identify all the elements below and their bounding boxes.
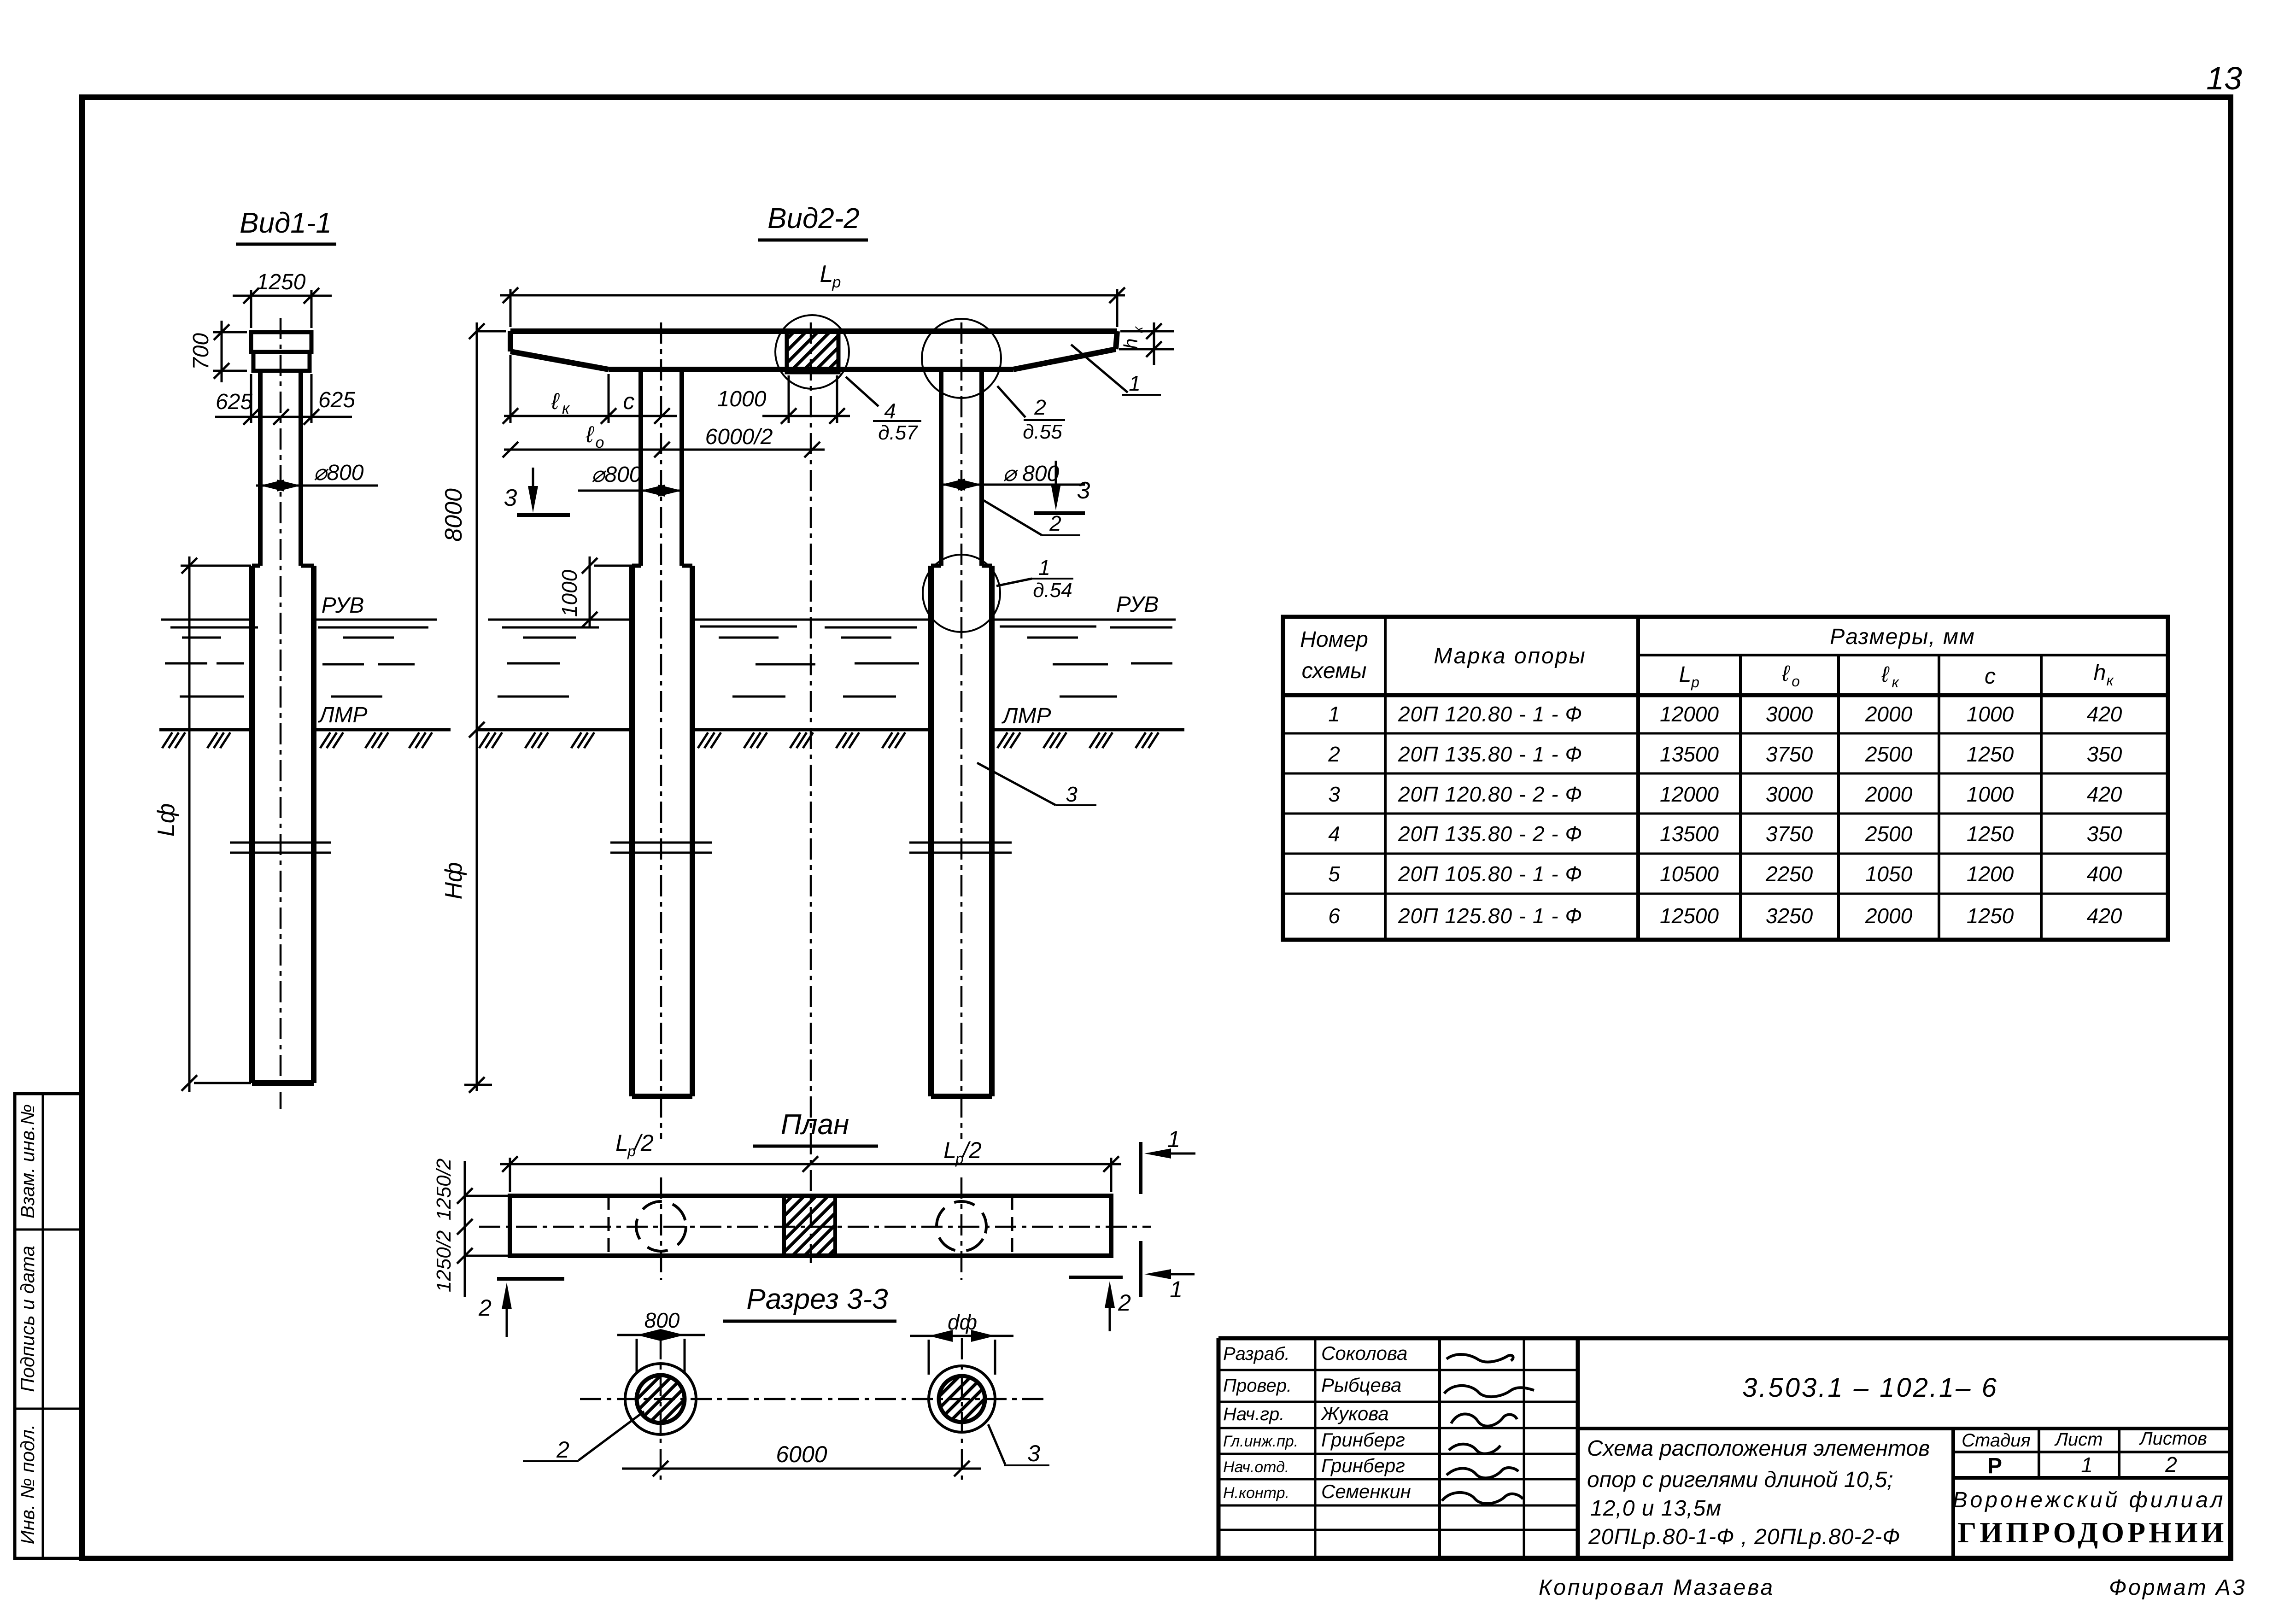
- dimension Lp/2 left: [615, 1130, 654, 1159]
- svg-text:д.57: д.57: [878, 422, 918, 444]
- dimension 8000 (column height): [440, 322, 506, 738]
- table row 4: [1328, 822, 2122, 846]
- svg-text:2: 2: [1328, 742, 1340, 766]
- svg-text:12000: 12000: [1660, 702, 1719, 726]
- water surface dashes (view 1-1): [165, 627, 428, 697]
- svg-text:4: 4: [884, 399, 896, 423]
- water line (view 2-2): [488, 619, 1176, 621]
- label lk: [551, 388, 570, 417]
- table row 1: [1328, 702, 2122, 726]
- svg-text:⌀ 800: ⌀ 800: [1003, 462, 1060, 486]
- svg-text:1: 1: [1129, 371, 1141, 395]
- dimension 6000 (pile spacing): [622, 1441, 981, 1476]
- signature table grid: [1218, 1338, 1578, 1558]
- view 1-1 pier cap (end view): [251, 332, 311, 371]
- svg-text:3: 3: [1328, 782, 1340, 806]
- section 2-2 cut mark left: [478, 1279, 564, 1337]
- svg-text:Разрез 3-3: Разрез 3-3: [746, 1283, 888, 1315]
- svg-text:План: План: [781, 1109, 849, 1141]
- svg-text:3750: 3750: [1766, 742, 1813, 766]
- svg-text:1000: 1000: [557, 569, 581, 617]
- svg-text:1250/2: 1250/2: [433, 1159, 455, 1221]
- svg-text:6000/2: 6000/2: [705, 425, 773, 449]
- leader 3 (foundation element): [977, 763, 1096, 806]
- svg-text:ГИПРОДОРНИИ: ГИПРОДОРНИИ: [1958, 1516, 2227, 1549]
- svg-text:к: к: [1130, 326, 1146, 333]
- svg-text:1000: 1000: [1967, 702, 2014, 726]
- dimension Lp/2 right: [943, 1137, 982, 1167]
- table header Номер схемы: [1300, 627, 1368, 683]
- label lo: [586, 422, 604, 451]
- water line (view 1-1): [161, 619, 437, 621]
- signature row Нач.отд. Гринберг: [1223, 1455, 1405, 1476]
- svg-text:Вид2-2: Вид2-2: [767, 203, 860, 234]
- dimension Lф (view 1-1): [153, 556, 251, 1092]
- svg-text:Стадия: Стадия: [1962, 1430, 2031, 1451]
- left margin strip: [15, 1094, 82, 1558]
- svg-text:2: 2: [1034, 395, 1046, 419]
- svg-text:1250: 1250: [1967, 742, 2014, 766]
- ground line (view 2-2): [476, 728, 1184, 732]
- table row 6: [1328, 904, 2122, 928]
- svg-text:Семенкин: Семенкин: [1321, 1481, 1411, 1502]
- section 2-2 cut mark right: [1069, 1277, 1131, 1331]
- section 3-3 cut mark right: [1034, 461, 1090, 513]
- svg-text:д.55: д.55: [1023, 421, 1062, 443]
- svg-text:13: 13: [2206, 60, 2242, 96]
- svg-text:800: 800: [644, 1308, 680, 1332]
- svg-text:20П 125.80 - 1 - Ф: 20П 125.80 - 1 - Ф: [1398, 904, 1582, 928]
- svg-text:2: 2: [1118, 1290, 1131, 1316]
- svg-text:Подпись и дата: Подпись и дата: [17, 1246, 38, 1392]
- svg-text:3: 3: [1027, 1440, 1040, 1466]
- svg-text:опор с ригелями длиной 10,5;: опор с ригелями длиной 10,5;: [1587, 1468, 1893, 1492]
- plan hidden right column circle: [927, 1192, 996, 1260]
- svg-text:Листов: Листов: [2138, 1429, 2207, 1449]
- dimension diameter 800 left column: [578, 463, 682, 497]
- svg-text:1: 1: [1167, 1126, 1180, 1152]
- shaft break symbol left (view 2-2): [610, 843, 712, 853]
- dimension diameter 800 right column: [941, 462, 1085, 491]
- section 3-3 left column hatched circle: [637, 1375, 685, 1423]
- table row 2: [1328, 742, 2122, 766]
- ground line (view 1-1): [159, 728, 451, 732]
- left column centerline: [660, 322, 662, 1139]
- title block inner lines: [1578, 1429, 2228, 1558]
- detail circle at midspan joint: [775, 315, 849, 389]
- svg-text:6000: 6000: [776, 1441, 827, 1467]
- svg-text:р: р: [1691, 674, 1699, 691]
- svg-text:4: 4: [1328, 822, 1340, 846]
- svg-text:h: h: [2094, 661, 2106, 685]
- svg-text:Hф: Hф: [440, 862, 467, 900]
- section 3-3 horizontal centerline: [580, 1398, 1048, 1400]
- dimension hk at cap end: [1119, 322, 1174, 365]
- svg-text:13500: 13500: [1660, 742, 1719, 766]
- svg-text:ℓ: ℓ: [586, 422, 594, 447]
- svg-text:Вид1-1: Вид1-1: [240, 207, 332, 239]
- svg-text:700: 700: [189, 333, 213, 370]
- dimension Hф (foundation depth): [440, 730, 492, 1093]
- cap midspan joint hatch block (element 4): [787, 331, 838, 372]
- svg-text:1: 1: [1328, 702, 1340, 726]
- svg-text:625: 625: [216, 390, 252, 414]
- dimension 1000 (foundation embedment): [557, 556, 633, 627]
- plan right column centerline: [961, 1177, 963, 1280]
- signature row Провер. Рыбцева: [1223, 1374, 1401, 1396]
- svg-text:Р: Р: [1987, 1454, 2002, 1478]
- svg-text:1: 1: [1170, 1276, 1183, 1302]
- svg-text:ℓ: ℓ: [1781, 662, 1790, 686]
- svg-text:L: L: [943, 1137, 956, 1163]
- svg-text:к: к: [1892, 674, 1899, 691]
- table subheaders Lp lo lk c hk: [1679, 661, 2114, 691]
- shaft break symbol (view 1-1): [230, 843, 331, 853]
- view 1-1 column centerline: [280, 318, 282, 1109]
- svg-text:Схема расположения элементов: Схема расположения элементов: [1587, 1436, 1930, 1461]
- svg-text:⌀800: ⌀800: [314, 461, 364, 485]
- svg-text:1: 1: [2081, 1453, 2093, 1477]
- svg-text:6: 6: [1328, 904, 1340, 928]
- signature row Н.контр. Семенкин: [1223, 1481, 1411, 1502]
- svg-text:20П 120.80 - 1 - Ф: 20П 120.80 - 1 - Ф: [1398, 702, 1582, 726]
- svg-text:3.503.1 – 102.1– 6: 3.503.1 – 102.1– 6: [1742, 1373, 1998, 1403]
- dimension lo and 6000/2 line: [503, 442, 825, 457]
- svg-text:2500: 2500: [1865, 742, 1913, 766]
- dimension lk and c line: [503, 355, 677, 424]
- svg-text:/2: /2: [633, 1130, 654, 1156]
- svg-text:ℓ: ℓ: [551, 388, 560, 414]
- svg-text:о: о: [1792, 673, 1800, 690]
- svg-text:Номер: Номер: [1300, 627, 1368, 652]
- svg-text:1000: 1000: [1967, 782, 2014, 806]
- svg-text:⌀800: ⌀800: [592, 463, 642, 487]
- svg-text:2: 2: [2165, 1452, 2177, 1476]
- svg-text:2250: 2250: [1765, 862, 1813, 886]
- right column shaft (view 2-2): [941, 369, 982, 566]
- svg-text:Жукова: Жукова: [1320, 1403, 1389, 1424]
- plan hidden haunch line right: [1011, 1196, 1013, 1256]
- svg-text:3: 3: [504, 485, 517, 511]
- svg-text:Размеры, мм: Размеры, мм: [1830, 625, 1975, 649]
- svg-text:Нач.отд.: Нач.отд.: [1223, 1458, 1289, 1476]
- svg-text:3250: 3250: [1766, 904, 1813, 928]
- section 3-3 right column hatched circle: [939, 1376, 985, 1422]
- svg-text:5: 5: [1328, 862, 1340, 886]
- svg-text:625: 625: [318, 388, 355, 412]
- dimension dф (section 3-3): [910, 1310, 1013, 1375]
- dimension 625 + 625 (view 1-1): [215, 374, 355, 425]
- svg-text:20П 135.80 - 2 - Ф: 20П 135.80 - 2 - Ф: [1398, 822, 1582, 846]
- leader 2 (column element): [983, 500, 1080, 535]
- dimensions table: [1283, 617, 2168, 940]
- dimension diameter 800 (view 1-1): [256, 461, 378, 492]
- svg-text:Нач.гр.: Нач.гр.: [1223, 1404, 1284, 1424]
- svg-text:20П 120.80 - 2 - Ф: 20П 120.80 - 2 - Ф: [1398, 782, 1582, 806]
- svg-text:к: к: [2106, 672, 2114, 689]
- plan cap beam outline: [510, 1196, 1111, 1256]
- section 1-1 cut mark bottom: [1141, 1241, 1195, 1302]
- leader 1 (cap element): [1071, 345, 1161, 395]
- svg-text:Рыбцева: Рыбцева: [1321, 1374, 1401, 1396]
- svg-text:2000: 2000: [1865, 782, 1913, 806]
- svg-text:схемы: схемы: [1302, 659, 1367, 683]
- dimension 1250/2 1250/2 (plan width): [433, 1159, 510, 1297]
- section 3-3 right pile outer circle: [929, 1366, 995, 1432]
- svg-text:Lф: Lф: [153, 803, 180, 837]
- svg-text:Гринберг: Гринберг: [1321, 1455, 1405, 1476]
- dimension 1250 (view 1-1): [233, 270, 332, 328]
- svg-text:1200: 1200: [1967, 862, 2014, 886]
- left column shaft (view 2-2): [641, 369, 682, 566]
- svg-text:1250: 1250: [257, 270, 306, 294]
- svg-text:РУВ: РУВ: [322, 593, 364, 618]
- svg-text:2000: 2000: [1865, 904, 1913, 928]
- plan joint hatch block: [784, 1196, 835, 1256]
- table row 3: [1328, 782, 2122, 806]
- svg-text:Инв. № подл.: Инв. № подл.: [17, 1424, 38, 1545]
- pier vertical centerline: [810, 322, 812, 1263]
- svg-text:с: с: [1985, 664, 1996, 689]
- svg-text:Взам. инв.№: Взам. инв.№: [17, 1104, 38, 1218]
- svg-text:3: 3: [1077, 477, 1090, 504]
- svg-text:РУВ: РУВ: [1116, 592, 1159, 617]
- detail circle at right column top: [922, 319, 1001, 398]
- svg-text:3000: 3000: [1766, 782, 1813, 806]
- signature row Разраб. Соколова: [1223, 1342, 1407, 1364]
- svg-text:h: h: [1120, 338, 1142, 349]
- svg-text:8000: 8000: [440, 488, 467, 542]
- svg-text:Марка опоры: Марка опоры: [1434, 644, 1586, 668]
- svg-text:Лист: Лист: [2054, 1429, 2103, 1450]
- svg-text:10500: 10500: [1660, 862, 1719, 886]
- svg-text:420: 420: [2087, 904, 2122, 928]
- view 1-1 drilled shaft foundation: [252, 566, 314, 1083]
- svg-text:Гл.инж.пр.: Гл.инж.пр.: [1223, 1433, 1298, 1450]
- svg-text:20П 135.80 - 1 - Ф: 20П 135.80 - 1 - Ф: [1398, 742, 1582, 766]
- svg-text:с: с: [623, 388, 635, 414]
- svg-text:Н.контр.: Н.контр.: [1223, 1484, 1289, 1502]
- leader 2 (section 3-3 left pile): [523, 1411, 644, 1463]
- section 3-3 cut mark left: [504, 468, 570, 515]
- svg-text:350: 350: [2087, 822, 2122, 846]
- svg-text:12500: 12500: [1660, 904, 1719, 928]
- svg-text:20ПLр.80-1-Ф , 20ПLр.80-2-Ф: 20ПLр.80-1-Ф , 20ПLр.80-2-Ф: [1588, 1525, 1900, 1549]
- section 3-3 title: [723, 1283, 896, 1321]
- svg-text:Копировал Мазаева: Копировал Мазаева: [1539, 1575, 1775, 1600]
- table row 5: [1328, 862, 2122, 886]
- section 3-3 right vertical centerline: [961, 1338, 963, 1480]
- svg-text:L: L: [820, 261, 833, 287]
- signature row Гл.инж.пр. Гринберг: [1223, 1429, 1405, 1451]
- svg-text:13500: 13500: [1660, 822, 1719, 846]
- svg-text:о: о: [596, 434, 604, 451]
- svg-text:400: 400: [2087, 862, 2122, 886]
- signature squiggles: [1442, 1354, 1534, 1504]
- dimension Lp (cap length): [500, 261, 1125, 327]
- svg-text:ЛМР: ЛМР: [318, 703, 368, 727]
- svg-text:/2: /2: [961, 1137, 982, 1163]
- svg-text:2: 2: [478, 1295, 492, 1321]
- svg-text:3750: 3750: [1766, 822, 1813, 846]
- svg-text:1250: 1250: [1967, 822, 2014, 846]
- svg-text:Провер.: Провер.: [1223, 1376, 1292, 1396]
- plan left column centerline: [660, 1177, 662, 1280]
- svg-text:dф: dф: [948, 1310, 977, 1334]
- svg-text:1050: 1050: [1865, 862, 1913, 886]
- right column centerline: [961, 322, 963, 1139]
- view 1-1 title: [236, 207, 336, 244]
- organization name: [1953, 1488, 2227, 1549]
- svg-text:ℓ: ℓ: [1881, 662, 1890, 687]
- svg-text:Гринберг: Гринберг: [1321, 1429, 1405, 1451]
- svg-text:2500: 2500: [1865, 822, 1913, 846]
- svg-text:420: 420: [2087, 702, 2122, 726]
- callout 2 / d.55 (column top): [997, 386, 1065, 443]
- section 3-3 left vertical centerline: [660, 1338, 662, 1480]
- svg-text:1000: 1000: [717, 387, 767, 411]
- svg-text:1: 1: [1038, 556, 1050, 580]
- plan dimension line Lp/2+Lp/2: [500, 1156, 1121, 1192]
- ground hatch strokes (view 1-1): [162, 732, 432, 748]
- stage/sheet headers: [1962, 1429, 2207, 1451]
- svg-text:ЛМР: ЛМР: [1002, 704, 1051, 728]
- svg-text:к: к: [562, 400, 570, 417]
- section 3-3 left pile outer circle: [625, 1364, 696, 1434]
- drawing description text: [1587, 1436, 1930, 1549]
- dimension 700 (view 1-1): [189, 321, 247, 382]
- callout 4 / d.57 (joint detail): [846, 377, 921, 444]
- svg-text:420: 420: [2087, 782, 2122, 806]
- svg-text:L: L: [1679, 662, 1692, 687]
- section 1-1 cut mark top: [1141, 1126, 1195, 1194]
- title block outline: [1218, 1338, 2228, 1558]
- svg-text:д.54: д.54: [1033, 579, 1072, 602]
- shaft break symbol right (view 2-2): [909, 843, 1012, 853]
- pier cap beam (element 1): [510, 331, 1117, 369]
- leader 3 (section 3-3 right pile): [988, 1424, 1049, 1466]
- signature row Нач.гр. Жукова: [1223, 1403, 1389, 1424]
- svg-text:12000: 12000: [1660, 782, 1719, 806]
- svg-text:3000: 3000: [1766, 702, 1813, 726]
- svg-text:L: L: [615, 1130, 628, 1156]
- svg-text:350: 350: [2087, 742, 2122, 766]
- plan hidden haunch line left: [608, 1196, 610, 1256]
- svg-text:р: р: [832, 274, 841, 291]
- dimension 800 (section 3-3): [617, 1308, 705, 1374]
- svg-text:3: 3: [1066, 782, 1078, 806]
- svg-text:Воронежский филиал: Воронежский филиал: [1953, 1488, 2226, 1512]
- dimension 1000 (joint width): [717, 375, 850, 424]
- callout 1 / d.54 (foundation joint): [996, 556, 1073, 602]
- view 1-1 column shaft: [260, 371, 301, 566]
- svg-text:Соколова: Соколова: [1321, 1342, 1407, 1364]
- svg-text:2: 2: [556, 1437, 569, 1463]
- svg-text:20П 105.80 - 1 - Ф: 20П 105.80 - 1 - Ф: [1398, 862, 1582, 886]
- svg-text:1250/2: 1250/2: [433, 1230, 455, 1293]
- plan horizontal centerline: [479, 1226, 1151, 1228]
- detail circle at right column foundation joint: [923, 555, 1000, 632]
- stage/sheet values Р 1 2: [1987, 1452, 2177, 1478]
- water surface dashes (view 2-2): [498, 626, 1172, 697]
- plan hidden left column circle: [636, 1201, 686, 1251]
- svg-text:Формат А3: Формат А3: [2109, 1575, 2247, 1600]
- svg-text:Разраб.: Разраб.: [1223, 1344, 1290, 1364]
- svg-text:12,0 и 13,5м: 12,0 и 13,5м: [1590, 1496, 1722, 1521]
- svg-text:2000: 2000: [1865, 702, 1913, 726]
- svg-text:1250: 1250: [1967, 904, 2014, 928]
- ground hatch strokes (view 2-2): [479, 732, 1159, 748]
- svg-text:2: 2: [1049, 511, 1061, 535]
- view 2-2 title: [758, 203, 868, 240]
- right foundation shaft (view 2-2): [931, 566, 992, 1096]
- left foundation shaft (view 2-2): [632, 566, 692, 1096]
- plan view title: [753, 1109, 878, 1146]
